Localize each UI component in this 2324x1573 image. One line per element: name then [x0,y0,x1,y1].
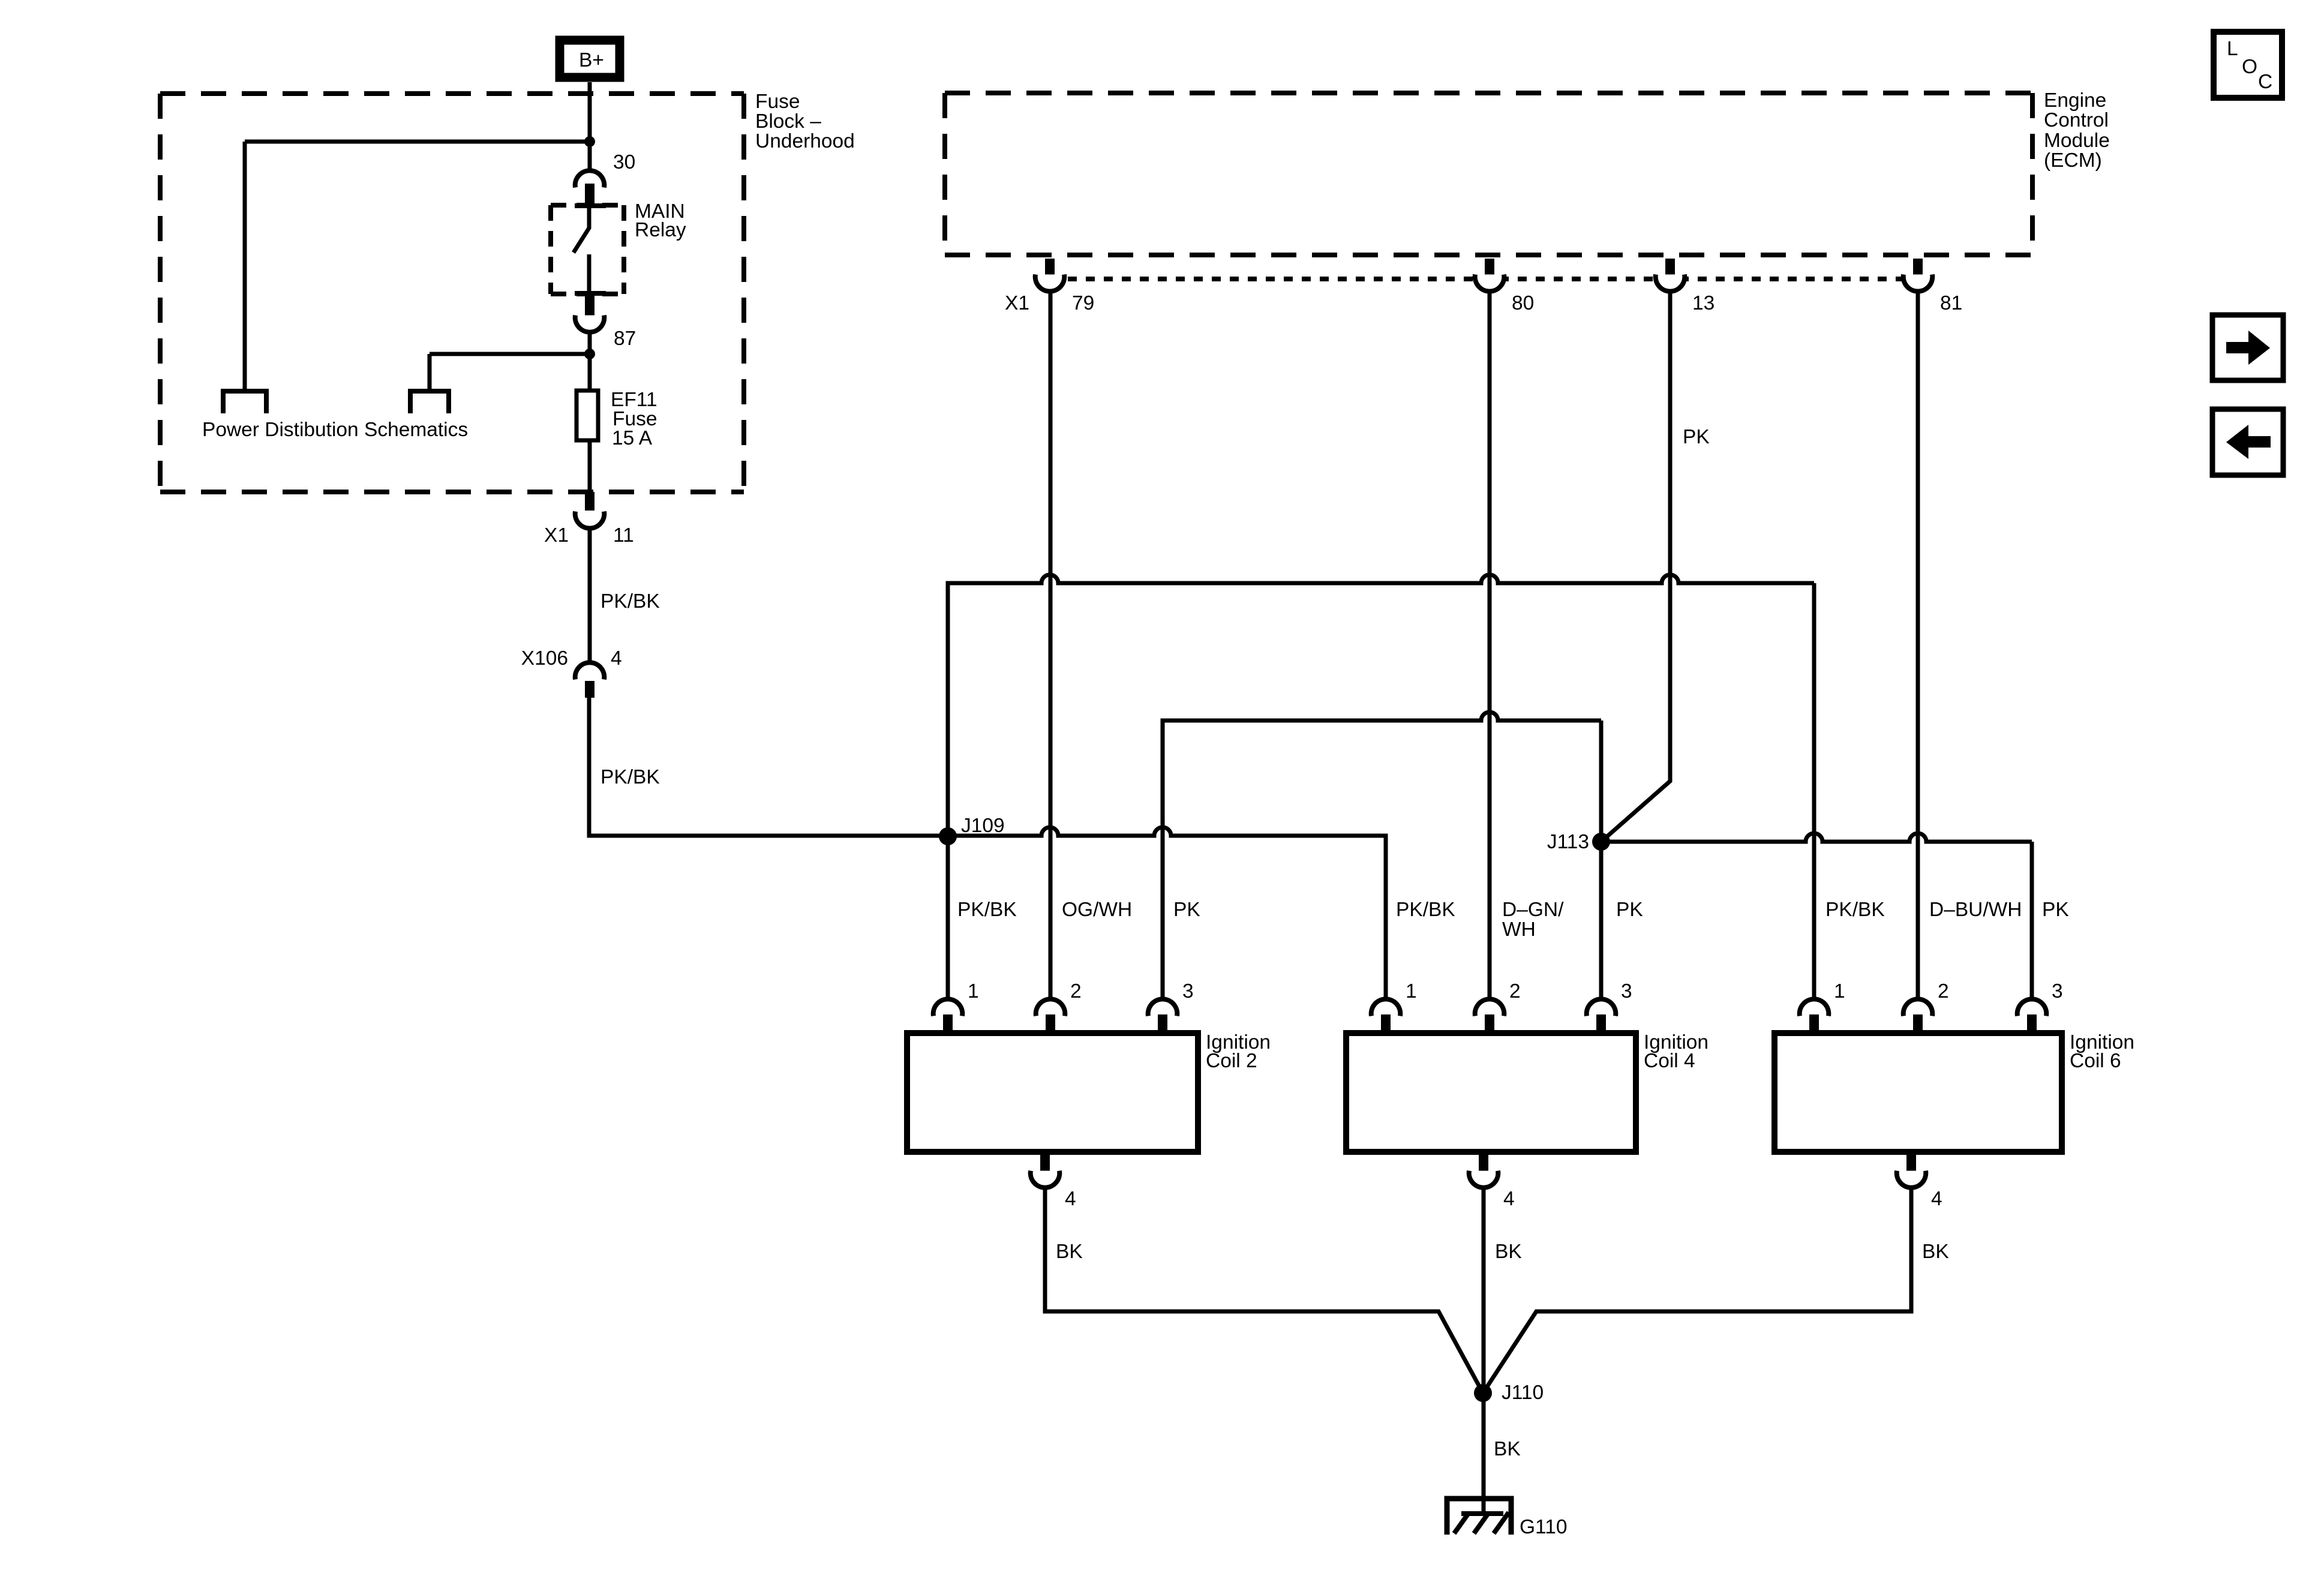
svg-text:3: 3 [1182,980,1194,1002]
connector cup coil2 pin4 [1031,1171,1060,1188]
svg-text:BK: BK [1494,1438,1521,1460]
ground hatch 2 [1474,1512,1489,1533]
svg-text:11: 11 [613,524,634,547]
svg-text:OG/WH: OG/WH [1062,899,1132,921]
svg-text:4: 4 [611,647,622,670]
ground hatch 3 [1494,1512,1509,1533]
arrow box right [2212,315,2283,380]
J113 horizontal line to coil6 pin3 [1601,833,2032,998]
junction at pin 87 [584,349,595,359]
wire BK coil2 to J110 [1045,1187,1483,1393]
svg-text:Block –: Block – [755,110,821,133]
wire fuse to X1-11 [588,440,592,492]
fuse block underhood dashed box [160,91,744,96]
svg-text:O: O [2242,56,2257,78]
connector cup pin 87 [575,316,605,332]
connector cup X1-13 [1656,275,1685,292]
connector cup X1-79 [1035,275,1065,292]
connector cup coil6 pin1 [1800,999,1829,1016]
svg-text:PK/BK: PK/BK [600,766,660,788]
svg-text:80: 80 [1512,292,1534,314]
pin stub coil6 pin4 [1906,1153,1916,1171]
svg-text:79: 79 [1072,292,1094,314]
svg-text:Relay: Relay [635,219,686,241]
connector cup X1-11 [575,512,605,529]
svg-text:4: 4 [1503,1188,1515,1210]
svg-text:1: 1 [1834,980,1845,1002]
svg-text:PK/BK: PK/BK [1396,899,1455,921]
ignition coil 4 box [1346,1033,1636,1152]
connector cup coil2 pin1 [933,999,963,1016]
connector cup coil4 pin4 [1469,1171,1499,1188]
svg-text:2: 2 [1938,980,1949,1002]
wire down to unterminated connector 1 [243,142,247,390]
svg-text:Power Distibution Schematics: Power Distibution Schematics [202,419,468,441]
svg-text:B+: B+ [579,49,604,71]
svg-text:D–BU/WH: D–BU/WH [1929,899,2022,921]
wire J113 down to coil4 pin3 [1599,842,1604,998]
svg-text:PK: PK [2042,899,2069,921]
svg-text:2: 2 [1070,980,1082,1002]
svg-text:Coil 6: Coil 6 [2070,1050,2121,1072]
pin stub X1-79 [1045,259,1055,277]
pin stub coil4 pin3 [1596,1014,1606,1033]
wire to power distribution left [245,140,590,144]
connector cup coil4 pin3 [1587,999,1616,1016]
svg-text:1: 1 [1406,980,1417,1002]
wire D-BU/WH pin81 to coil6 pin2 [1916,292,1920,998]
svg-text:G110: G110 [1520,1516,1567,1538]
arrow box left [2212,409,2283,475]
connector cup coil4 pin1 [1371,999,1401,1016]
PK bus line to coil2 pin3 [1163,712,1601,998]
pin stub coil6 pin3 [2027,1014,2037,1033]
svg-text:1: 1 [968,980,979,1002]
svg-text:2: 2 [1509,980,1521,1002]
MAIN relay dashed box [551,203,624,208]
wire B+ down to relay pin 30 [588,82,592,170]
svg-text:BK: BK [1922,1241,1949,1263]
svg-text:PK/BK: PK/BK [600,590,660,613]
fuse EF11 body [577,391,598,440]
wire PK/BK X1-11 to X106 [588,530,592,662]
svg-text:PK/BK: PK/BK [957,899,1017,921]
wire down to unterminated connector 2 [428,354,432,390]
svg-text:X1: X1 [1005,292,1029,314]
connector cup coil6 pin4 [1897,1171,1926,1188]
wire PK pin13 to J113 [1601,292,1670,842]
svg-text:Underhood: Underhood [755,130,855,152]
svg-text:Control: Control [2044,109,2109,131]
power symbol B+ box [560,40,620,77]
pin stub coil2 pin3 [1158,1014,1167,1033]
svg-text:13: 13 [1692,292,1715,314]
svg-text:C: C [2258,71,2272,93]
pin stub coil4 pin2 [1485,1014,1494,1033]
pin stub X1-81 [1913,259,1923,277]
connector cup X1-80 [1475,275,1505,292]
connector cup X106-4 [575,662,605,679]
ignition coil 6 box [1774,1033,2062,1152]
connector cup coil2 pin2 [1036,999,1065,1016]
svg-text:J109: J109 [961,815,1005,837]
junction J110 [1474,1384,1492,1402]
svg-text:Module: Module [2044,130,2110,152]
pin stub coil4 pin4 [1479,1153,1488,1171]
junction above pin 30 [584,136,595,147]
connector cup coil6 pin3 [2017,999,2047,1016]
wire OG/WH pin79 to coil2 pin2 [1049,292,1053,998]
connector cup coil4 pin2 [1475,999,1505,1016]
pin stub X106-4 [585,681,594,698]
ground G110 bar [1461,1511,1503,1516]
svg-text:Coil 4: Coil 4 [1644,1050,1695,1072]
svg-text:4: 4 [1931,1188,1942,1210]
svg-text:PK: PK [1683,426,1710,448]
pin stub coil2 pin2 [1046,1014,1055,1033]
svg-text:4: 4 [1065,1188,1076,1210]
pin stub coil6 pin1 [1809,1014,1819,1033]
pin stub coil2 pin4 [1040,1153,1050,1171]
pin stub coil2 pin1 [943,1014,953,1033]
left arrow icon [2226,425,2271,459]
svg-text:Engine: Engine [2044,89,2106,112]
svg-text:30: 30 [613,151,635,173]
junction J113 [1592,833,1610,851]
ground hatch 1 [1454,1512,1469,1533]
svg-text:Fuse: Fuse [755,91,800,113]
connector cup X1-81 [1903,275,1933,292]
pin stub 87 [585,296,594,316]
svg-text:BK: BK [1056,1241,1083,1263]
pin stub X1-13 [1665,259,1675,277]
connector cup coil6 pin2 [1903,999,1933,1016]
connector cup pin 30 [575,170,605,187]
svg-text:WH: WH [1502,918,1536,941]
pin stub X1-11 [585,492,594,511]
LOC reference box [2214,32,2282,98]
relay switch blade [574,208,589,253]
junction J109 [939,827,957,845]
wire D-GN/WH pin80 to coil4 pin2 [1488,292,1492,998]
wire BK coil4 through J110 to ground [1482,1187,1486,1514]
unterminated connector 2 [410,391,449,413]
wire BK coil6 to J110 [1483,1187,1911,1393]
svg-text:PK: PK [1173,899,1200,921]
connector cup coil2 pin3 [1148,999,1178,1016]
svg-text:X1: X1 [544,524,569,547]
svg-text:15 A: 15 A [612,427,653,449]
svg-text:(ECM): (ECM) [2044,149,2102,172]
pin stub coil6 pin2 [1913,1014,1923,1033]
svg-text:81: 81 [1940,292,1962,314]
pin stub coil4 pin1 [1381,1014,1391,1033]
svg-text:BK: BK [1495,1241,1522,1263]
relay fixed contact top [575,203,606,208]
svg-text:87: 87 [614,328,636,350]
relay fixed contact bottom [575,291,606,296]
svg-text:J113: J113 [1547,831,1589,853]
connector X1 dotted line [1050,277,1918,281]
svg-text:X106: X106 [521,647,568,670]
pin stub 30 [585,184,594,205]
wire pin 87 to fuse EF11 [588,332,592,391]
svg-text:3: 3 [1621,980,1632,1002]
ground G110 staple [1447,1499,1511,1535]
svg-text:D–GN/: D–GN/ [1502,899,1564,921]
ECM dashed box [945,91,2032,95]
svg-text:Coil 2: Coil 2 [1206,1050,1257,1072]
ignition coil 2 box [907,1033,1198,1152]
PK/BK bus line top [948,575,1814,998]
svg-text:3: 3 [2052,980,2063,1002]
svg-text:L: L [2227,38,2238,60]
pin stub X1-80 [1485,259,1494,277]
svg-text:PK: PK [1616,899,1643,921]
unterminated connector 1 [223,391,266,413]
svg-text:J110: J110 [1502,1382,1544,1404]
relay lower contact lead [587,254,591,293]
wire from pin 87 to connector 2 [430,352,590,356]
J109 horizontal line X106 to coil4 pin1 [589,698,1386,998]
right arrow icon [2226,331,2270,365]
svg-text:PK/BK: PK/BK [1825,899,1885,921]
